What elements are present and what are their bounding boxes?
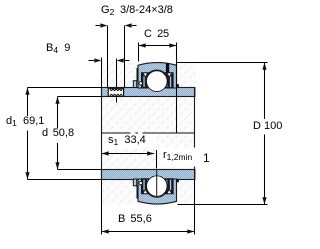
lubrication hole slot in top outer ring: [166, 63, 169, 75]
top cavity white: [142, 72, 172, 88]
B4 right arrow: [117, 58, 124, 62]
raceway arc outline bottom: [146, 189, 167, 197]
d1 top arrow: [25, 88, 29, 95]
G2 extension lines: [107, 26, 109, 88]
label r value 1: [203, 152, 210, 165]
G2 left arrow: [100, 23, 107, 27]
label d1: [6, 116, 44, 128]
s1 tick: [156, 150, 158, 169]
C dimension line: [139, 45, 177, 47]
inner ring sleeve top bar: [102, 88, 195, 97]
outer ring top section: [138, 63, 177, 93]
G2 arrows: [96, 25, 101, 27]
C left arrow: [139, 43, 146, 47]
B4 left arrow: [94, 58, 101, 62]
outer ring bottom section: [138, 175, 177, 204]
white boxes behind in-part labels: [103, 134, 156, 149]
D top arrow: [262, 63, 266, 70]
G2 right arrow: [125, 23, 132, 27]
label C: [144, 29, 169, 41]
C extension lines: [138, 43, 140, 62]
left flinger foot bottom: [133, 179, 136, 186]
seal right bottom: [164, 179, 173, 194]
centre line (axis): [102, 132, 196, 134]
label r12min: [163, 150, 192, 162]
ball bottom: [147, 176, 168, 197]
bottom cavity white: [142, 179, 172, 195]
d extension lines: [58, 96, 102, 98]
seal left top: [139, 73, 150, 88]
B left arrow: [102, 229, 109, 233]
B dimension line: [102, 231, 195, 233]
left flinger strip bottom: [137, 185, 139, 198]
label B: [118, 214, 152, 226]
sleeve right face line through bore: [194, 88, 196, 180]
label D: [253, 121, 282, 133]
D extension bottom: [178, 204, 268, 206]
s1 right arrow: [147, 151, 154, 155]
B4 extension lines: [101, 58, 103, 88]
s1 left arrow: [102, 151, 109, 155]
B extension lines: [101, 180, 103, 235]
left flinger foot top: [133, 81, 136, 88]
right flinger nub top: [176, 84, 179, 87]
right flinger nub bottom: [176, 179, 179, 182]
inner ring sleeve bottom bar: [102, 170, 195, 180]
B4 arrow tails: [89, 60, 95, 62]
set screw axis line below bar: [116, 97, 118, 103]
seal right top: [164, 73, 173, 88]
B right arrow: [187, 229, 194, 233]
set screw (grub screw) in top bar: [108, 88, 123, 96]
raceway arc outline: [146, 70, 167, 78]
d dimension line: [57, 97, 59, 129]
ball top: [146, 71, 167, 92]
label G2 thread spec: [101, 5, 114, 17]
s1 dimension line: [102, 153, 155, 155]
D dimension line: [264, 63, 266, 120]
d1 extension lines: [28, 87, 102, 89]
D extension top: [177, 62, 268, 64]
arrowheads: [25, 23, 266, 233]
C right arrow: [169, 43, 176, 47]
centre plane line through bottom ball: [156, 170, 158, 197]
seal left bottom: [139, 179, 150, 194]
label s1: [108, 135, 146, 147]
d top arrow: [55, 97, 59, 104]
d bottom arrow: [55, 162, 59, 169]
d1 dimension line: [27, 88, 29, 117]
sleeve left face line through bore: [101, 88, 103, 180]
left flinger strip top: [137, 68, 139, 81]
hatched drawing zone (part bounding box): [102, 63, 196, 205]
label d: [42, 128, 74, 140]
D bottom arrow: [262, 197, 266, 204]
label B4: [46, 43, 70, 55]
d1 bottom arrow: [25, 172, 29, 179]
